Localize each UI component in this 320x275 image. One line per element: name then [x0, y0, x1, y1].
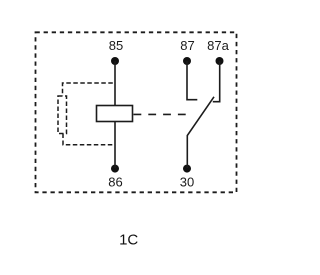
wire 87 fixed contact [187, 61, 197, 100]
svg-text:1C: 1C [119, 232, 138, 249]
actuator linkage (dashed) [134, 113, 188, 115]
armature core dashed box [58, 96, 67, 134]
wire coil to 86 [114, 122, 116, 169]
terminal 86 [111, 165, 119, 173]
relay outline (dashed body box) [36, 32, 237, 192]
svg-text:86: 86 [108, 174, 122, 189]
svg-text:87a: 87a [207, 38, 229, 53]
terminal 30 [183, 165, 191, 173]
coil K1 [97, 106, 133, 122]
switch armature (common 30) [187, 97, 214, 168]
svg-text:85: 85 [109, 38, 123, 53]
armature core dashed link bottom [63, 134, 113, 145]
svg-text:30: 30 [180, 174, 194, 189]
terminal 87a [216, 57, 224, 65]
wire 87a fixed contact [213, 61, 220, 102]
svg-text:87: 87 [180, 38, 194, 53]
armature core dashed link top [63, 83, 113, 96]
wire 85 to coil [114, 61, 116, 106]
terminal 87 [183, 57, 191, 65]
terminal 85 [111, 57, 119, 65]
